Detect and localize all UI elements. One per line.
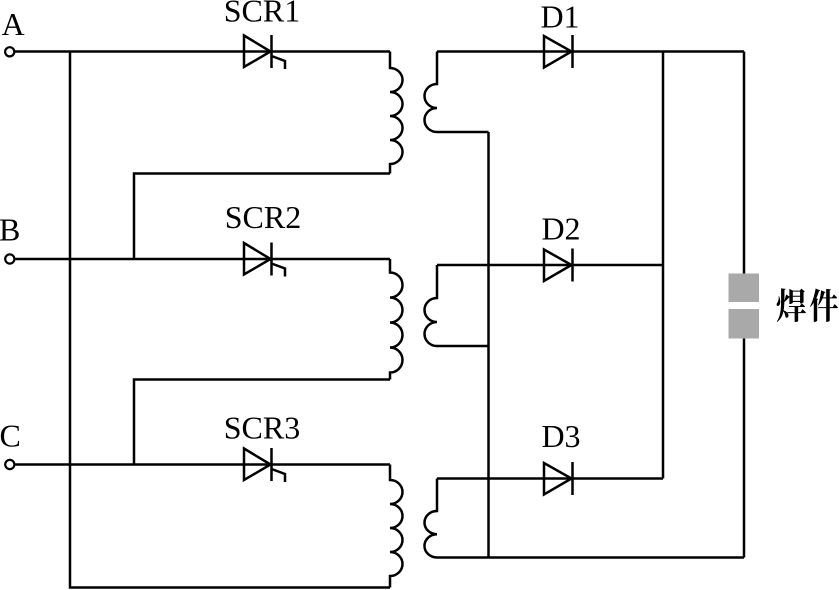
thyristor SCR1 <box>244 35 285 69</box>
label 焊件 (hanzi drawn as glyph outlines) <box>777 288 838 322</box>
wire secondary row 3 to rectifier <box>437 477 663 480</box>
svg-text:D2: D2 <box>541 211 580 247</box>
terminal B <box>5 254 14 263</box>
wire top right corner down to workpiece <box>743 52 746 274</box>
svg-text:B: B <box>0 212 20 248</box>
workpiece electrode lower plate <box>729 309 760 339</box>
wire T3 primary return to phase A (left loop) <box>70 52 390 588</box>
thyristor SCR2 <box>244 243 285 277</box>
wire workpiece bottom return <box>743 339 746 558</box>
svg-text:D3: D3 <box>541 418 580 454</box>
wire secondary common bus <box>487 132 490 558</box>
wire secondary row 2 to rectifier <box>437 264 663 267</box>
transformer T1 secondary winding <box>425 52 438 133</box>
diode D2 <box>544 249 573 282</box>
transformer T2 primary winding <box>390 259 402 380</box>
diode D3 <box>544 462 573 495</box>
wire cathode bus <box>662 52 665 479</box>
svg-text:SCR1: SCR1 <box>224 0 300 29</box>
diode D1 <box>544 35 573 68</box>
wire secondary row 1 to rectifier <box>437 50 744 53</box>
svg-text:C: C <box>0 418 21 454</box>
workpiece electrode upper plate <box>729 274 760 303</box>
wire phase B row <box>16 258 391 261</box>
wire phase C row <box>16 463 391 466</box>
wire T1 secondary bottom to bus <box>437 131 489 134</box>
svg-text:SCR2: SCR2 <box>225 199 301 235</box>
svg-text:D1: D1 <box>540 0 579 35</box>
transformer T2 secondary winding <box>425 265 438 346</box>
wire T2 primary return to phase C <box>134 380 390 465</box>
transformer T3 primary winding <box>390 465 402 588</box>
thyristor SCR3 <box>244 448 285 482</box>
transformer T3 secondary winding <box>424 479 437 558</box>
transformer T1 primary winding <box>390 52 402 174</box>
wire phase A row <box>15 50 390 53</box>
svg-text:A: A <box>2 6 25 42</box>
terminal C <box>5 460 14 469</box>
wire bottom return bus <box>437 556 744 559</box>
terminal A <box>5 47 14 56</box>
wire T1 primary return to phase B <box>134 174 390 260</box>
svg-text:SCR3: SCR3 <box>224 410 300 446</box>
wire T2 secondary bottom to bus <box>437 345 489 348</box>
